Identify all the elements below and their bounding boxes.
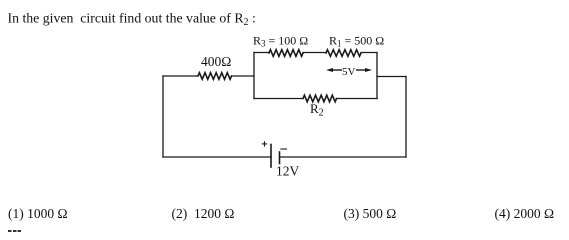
voltage arrow right [356,68,372,72]
wire box top edge segment 3 [361,52,377,54]
wire box bottom edge segment 1 [254,98,303,100]
battery plate short negative [279,152,281,164]
svg-text:(2) 1200 Ω: (2) 1200 Ω [172,206,235,221]
resistor R2 [303,95,337,102]
wire right horizontal [377,76,406,78]
wire 400ohm to box left edge [232,75,255,77]
wire right vertical [405,77,407,158]
battery plate long positive [270,145,272,168]
wire bottom left to battery [163,156,271,158]
wire box top edge segment 2 [303,52,326,54]
svg-text:(3) 500 Ω: (3) 500 Ω [344,206,397,221]
svg-text:(4) 2000 Ω: (4) 2000 Ω [495,206,555,221]
wire top-left horizontal to 400ohm resistor [163,75,198,77]
svg-text:400Ω: 400Ω [201,54,231,69]
voltage arrow left [326,68,342,72]
resistor 400ohm [198,73,232,80]
svg-text:(1) 1000 Ω: (1) 1000 Ω [8,206,68,221]
resistor R3 [269,50,303,57]
svg-text:In the given circuit find out: In the given circuit find out the value … [8,10,256,28]
wire box bottom edge segment 2 [337,98,378,100]
resistor R1 [326,50,361,57]
svg-text:12V: 12V [276,163,300,178]
wire box right edge [376,53,378,99]
cut-off next line text [8,230,12,233]
wire box top edge segment 1 [254,52,269,54]
svg-text:5V: 5V [342,66,356,78]
label battery plus [262,141,267,146]
label battery minus [280,148,287,150]
wire box left edge [253,53,255,99]
wire left vertical [162,76,164,157]
wire battery to bottom right [280,156,407,158]
